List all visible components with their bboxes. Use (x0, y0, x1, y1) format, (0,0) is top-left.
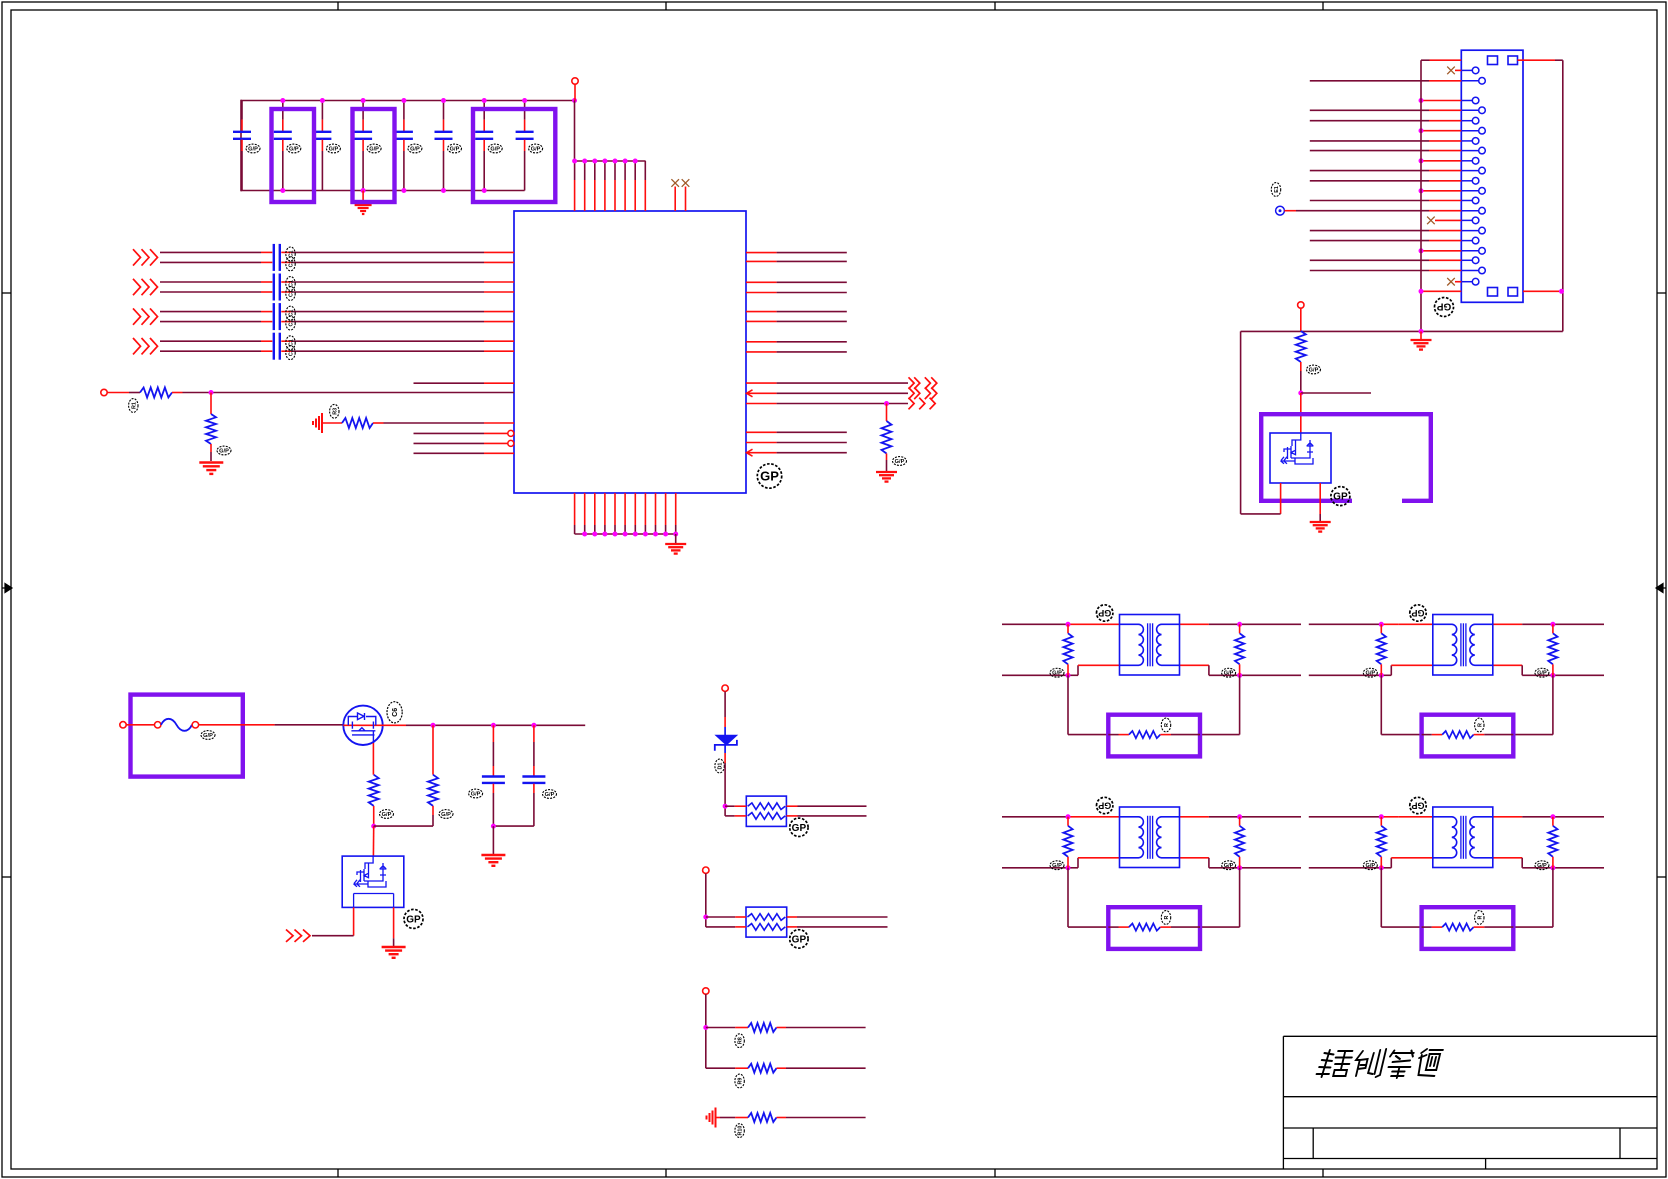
svg-text:G/P: G/P (531, 146, 541, 152)
wire IC bottom pin 2 (584, 493, 586, 525)
wire terminal to RP2 (705, 874, 707, 927)
connector pin 11 (1461, 180, 1472, 182)
junction (582, 159, 587, 164)
title block top (1283, 1035, 1657, 1037)
label C15 (286, 306, 295, 320)
IC top pin bus (575, 160, 646, 162)
wire junction into Q2 (1300, 393, 1302, 433)
wire branch right (1301, 392, 1371, 394)
junction (613, 532, 618, 537)
wire bus top to connector (1421, 59, 1430, 61)
svg-text:R9: R9 (738, 1078, 744, 1085)
zone tick bottom 2 (665, 1169, 667, 1177)
wire R7 drop (432, 725, 434, 774)
wire T3 lower jog left (1068, 867, 1078, 869)
wire IC right long 3 (746, 403, 777, 405)
wire caps common (493, 825, 534, 827)
junction (653, 532, 658, 537)
wire RP1 out b (786, 815, 797, 817)
wire gnd to R10 (716, 1117, 720, 1119)
junction (623, 532, 628, 537)
wire T1 lower rail left (1002, 674, 1068, 676)
wire data pair 1b (160, 261, 261, 263)
label Q1 (387, 702, 402, 723)
label centre-tap R T1 (1161, 718, 1170, 732)
wire IC top pin 4 (604, 161, 606, 180)
wire IC right bus 8 (746, 351, 777, 353)
junction (582, 532, 587, 537)
junction (663, 532, 668, 537)
wire centre-tap left down T4 (1380, 868, 1382, 927)
junction (320, 98, 325, 103)
resistor R2 (206, 414, 216, 444)
resistor pack RP1 (746, 796, 786, 826)
resistor centre-tap T4 (1422, 926, 1432, 928)
connector left bus (1420, 60, 1422, 331)
wire IC bottom pin 7 (634, 493, 636, 525)
transformer T3 primary coil (1120, 817, 1144, 858)
wire T2 top rail left (1309, 623, 1382, 625)
wire T3 lower rail right (1240, 867, 1301, 869)
input arrow on pin 2 (747, 449, 753, 456)
wire R10 out (777, 1117, 787, 1119)
stamp GP for RP1 (790, 818, 808, 836)
capacitor C9 (492, 725, 494, 742)
stamp G/P for C2 (287, 144, 301, 153)
svg-text:G/P: G/P (369, 146, 379, 152)
stamp G/P for F1 (201, 731, 215, 740)
series capacitor pair 3 plate B (279, 303, 281, 330)
wire T4 lower rail right (1553, 867, 1604, 869)
wire IC left stub NC1 (414, 432, 485, 434)
svg-text:GP: GP (1098, 800, 1111, 810)
junction (1379, 814, 1384, 819)
connector pin 16 (1461, 230, 1478, 232)
connector pin 9 (1461, 160, 1472, 162)
svg-text:C1: C1 (289, 290, 295, 297)
wire T4 top rail right (1493, 816, 1522, 818)
transistor Q1 (P-FET in circle) (343, 706, 382, 745)
junction (361, 188, 366, 193)
wire IC bottom pin 3 (594, 493, 596, 525)
wire Q3 left leg (353, 907, 355, 935)
zone tick top 4 (1322, 2, 1324, 10)
capacitor C1 (241, 101, 243, 120)
terminal pull-up (1298, 302, 1304, 308)
stamp G/P for R4 (893, 457, 907, 466)
wire IC top pin 2 (584, 161, 586, 180)
zone tick bottom 1 (337, 1169, 339, 1177)
label termination right T3 (1222, 861, 1236, 870)
label R8 (735, 1034, 744, 1048)
wire input to R1 (107, 392, 129, 394)
wire data pair 1a (160, 251, 261, 253)
junction (371, 824, 376, 829)
wire to pin 19 (1310, 259, 1429, 261)
junction (531, 723, 536, 728)
transformer T2 core (1460, 623, 1462, 666)
junction (361, 98, 366, 103)
wire IC bottom pin 1 (574, 493, 576, 525)
purple highlight box around C7 C8 (473, 109, 555, 202)
junction (280, 188, 285, 193)
svg-text:C1: C1 (289, 349, 295, 356)
label C12 (286, 257, 295, 271)
transformer T1 body (1120, 615, 1180, 676)
capacitor C8 (524, 101, 526, 120)
series capacitor pair 2 plate A (273, 274, 275, 301)
junction (1066, 673, 1071, 678)
svg-text:GP: GP (1411, 608, 1424, 618)
resistor termination left T4 (1380, 817, 1382, 826)
wire IC right stub 1 (746, 431, 777, 433)
label near terminal (1271, 183, 1280, 197)
svg-text:GP: GP (1333, 492, 1348, 503)
svg-text:R: R (1477, 723, 1483, 727)
stamp GP rotated T2 (1410, 605, 1426, 621)
stamp GP for Q2 (1331, 487, 1350, 506)
no-connect circle 1 (508, 430, 514, 436)
wire to pin 8 (1310, 150, 1429, 152)
label termination left T1 (1050, 668, 1064, 677)
svg-text:G/P: G/P (471, 791, 481, 797)
wire to R9 (706, 1067, 736, 1069)
stamp GP rotated T4 (1410, 797, 1426, 813)
wire centre-tap right down T4 (1552, 868, 1554, 927)
connector pin 20 (1461, 270, 1478, 272)
wire connector top right (1518, 59, 1556, 61)
svg-text:R10: R10 (738, 1126, 744, 1136)
wire IC right stub 3 (746, 452, 777, 454)
connector mount square 1 (1488, 56, 1498, 65)
IC U1 body (514, 211, 746, 493)
wire Q1 drain down (372, 743, 374, 775)
company name Wistron (drawn glyphs) (1316, 1049, 1444, 1078)
svg-text:G/P: G/P (203, 733, 213, 739)
junction (592, 532, 597, 537)
wire to pin 11 (1310, 180, 1429, 182)
svg-text:G/P: G/P (1052, 671, 1062, 677)
wire centre-tap right down T2 (1552, 675, 1554, 734)
off-page chevrons right 1 (909, 377, 915, 389)
capacitor C10 (533, 725, 535, 742)
wire T4 lower jog right (1493, 857, 1522, 859)
svg-text:R8: R8 (738, 1037, 744, 1044)
no-connect X pin 15 (1427, 217, 1435, 225)
label R3 (330, 404, 339, 418)
series capacitor pair 4 plate A (273, 333, 275, 360)
ground under connector bus (1420, 331, 1422, 339)
junction (703, 915, 708, 920)
svg-text:G/P: G/P (248, 146, 258, 152)
connector right drop (1562, 60, 1564, 331)
label termination left T4 (1363, 861, 1377, 870)
resistor termination right T2 (1552, 624, 1554, 633)
svg-text:G/P: G/P (289, 146, 299, 152)
zone tick right 2 (1657, 876, 1666, 878)
wire into fuse (126, 724, 154, 726)
series capacitor pair 1 plate B (279, 244, 281, 271)
wire junction down to Q3 (372, 826, 374, 856)
svg-text:G/P: G/P (1365, 671, 1375, 677)
IC bottom pin bus (575, 533, 676, 535)
transformer T4 core (1460, 816, 1462, 859)
ground at IC bottom bus (675, 534, 677, 544)
junction (401, 98, 406, 103)
wire RP1 out a (786, 805, 797, 807)
wire data pair 4b (160, 350, 261, 352)
transformer T4 secondary coil (1470, 817, 1493, 858)
wire T1 lower jog left (1068, 674, 1078, 676)
ground under Q2 (1310, 521, 1331, 523)
wire ground return (1241, 330, 1563, 332)
wire bus stub pin 3 (1421, 100, 1461, 102)
resistor R7 (428, 775, 438, 806)
connector pin 8 (1461, 150, 1478, 152)
wire T3 top into transformer (1085, 816, 1120, 818)
off-page chevrons group 3 (133, 308, 141, 324)
junction (1550, 865, 1555, 870)
wire centre-tap right down T1 (1239, 675, 1241, 734)
wire IC right bus 3 (746, 281, 777, 283)
title block line 2 (1283, 1096, 1657, 1098)
purple highlight box around C2 (272, 109, 315, 202)
transformer T3 body (1120, 807, 1180, 868)
connector mount square 4 (1508, 288, 1518, 297)
wire T2 lower rail left (1309, 674, 1382, 676)
ground rail bottom of capacitor bank (241, 190, 525, 192)
resistor centre-tap T3 (1108, 926, 1118, 928)
wire rail left drop (240, 100, 242, 192)
wire T4 top rail left (1309, 816, 1382, 818)
connector mount square 2 (1508, 56, 1518, 65)
junction (1066, 622, 1071, 627)
stamp GP for Q3 (404, 909, 423, 928)
svg-text:E1: E1 (1274, 186, 1280, 193)
wire data pair 3b (160, 321, 261, 323)
svg-text:C1: C1 (289, 250, 295, 257)
transformer T2 body (1433, 615, 1493, 676)
transformer T1 core (1147, 623, 1149, 666)
wire connector bottom left (1421, 290, 1461, 292)
series capacitor pair 2 plate B (279, 274, 281, 301)
wire IC top pin 7 (634, 161, 636, 180)
svg-text:D1: D1 (718, 763, 724, 770)
transformer T4 primary coil (1433, 817, 1457, 858)
wire RP1 in b (725, 815, 735, 817)
connector pin 1 (1461, 69, 1472, 71)
resistor termination right T4 (1552, 817, 1554, 826)
junction (431, 723, 436, 728)
wire terminal to pin 14 (1284, 210, 1296, 212)
wire data pair 2b (160, 291, 261, 293)
resistor pack RP2 (746, 907, 787, 937)
label centre-tap R T2 (1475, 718, 1484, 732)
wire IC right bus 7 (746, 341, 777, 343)
title block divider c (1485, 1159, 1487, 1170)
resistor R8 (748, 1023, 777, 1032)
wire IC right bus 6 (746, 320, 777, 322)
wire centre-tap left down T2 (1380, 675, 1382, 734)
connector pin 19 (1461, 259, 1472, 261)
junction (401, 188, 406, 193)
connector pin 21 (1461, 281, 1472, 283)
label R1 (129, 399, 138, 413)
wire R3 to IC (373, 422, 384, 424)
wire T3 top rail left (1002, 816, 1068, 818)
resistor R6 (369, 775, 379, 806)
transformer T2 primary coil (1433, 624, 1457, 665)
wire Q2 drain to ground (1319, 483, 1321, 514)
transformer T1 secondary coil (1157, 624, 1180, 665)
junction (613, 159, 618, 164)
wire IC right stub 2 (746, 442, 777, 444)
label D1 (715, 759, 724, 773)
label C9 (469, 789, 483, 798)
stamp GP rotated T1 (1096, 605, 1112, 621)
centre arrow right (1656, 584, 1666, 593)
wire data pair 4a (160, 340, 261, 342)
wire junction down (210, 393, 212, 415)
off-page chevrons gate (286, 930, 293, 942)
purple highlight box around R T1 (1108, 715, 1200, 757)
label C18 (286, 346, 295, 360)
ground under capacitor bank (362, 191, 364, 205)
wire T2 lower jog right (1493, 664, 1522, 666)
zone tick left 2 (2, 876, 11, 878)
wire IC bottom pin 5 (614, 493, 616, 525)
wire R5 to junction (1300, 362, 1302, 371)
wire Q2 source out (1280, 483, 1282, 514)
junction (1237, 622, 1242, 627)
wire IC left stub NC2 (414, 442, 485, 444)
wire T3 top rail right (1180, 816, 1209, 818)
wire to pin 4 (1310, 109, 1429, 111)
connector pin 3 (1461, 100, 1472, 102)
svg-text:G/P: G/P (1052, 863, 1062, 869)
capacitor C2 (282, 101, 284, 120)
svg-text:G/P: G/P (329, 146, 339, 152)
resistor R5 (1296, 331, 1306, 362)
wire down to Q2 source (1240, 331, 1242, 514)
svg-text:G/P: G/P (1224, 863, 1234, 869)
wire IC left stub 2 (414, 452, 485, 454)
wire T2 top into transformer (1398, 623, 1433, 625)
junction (633, 159, 638, 164)
wire R6 to junction (373, 806, 375, 826)
capacitor C3 (321, 101, 323, 120)
junction (1379, 865, 1384, 870)
terminal VCC (572, 78, 578, 84)
label centre-tap R T4 (1475, 911, 1484, 925)
resistor R3 (342, 418, 373, 428)
wire R7 to junction (432, 806, 434, 815)
stamp G/P for C3 (326, 144, 340, 153)
stamp G/P for C5 (408, 144, 422, 153)
junction (482, 98, 487, 103)
transistor Q3 internals (354, 856, 394, 907)
wire T1 top rail left (1002, 623, 1068, 625)
wire IC right long 2 (746, 392, 777, 394)
transistor Q2 body (1270, 433, 1331, 483)
wire to pin 17 (1310, 240, 1429, 242)
wire data pair 3a (160, 311, 261, 313)
wire IC top pin 5 (614, 161, 616, 180)
zone tick top 1 (337, 2, 339, 10)
terminal input (101, 389, 107, 395)
label C14 (286, 287, 295, 301)
svg-text:R: R (1477, 915, 1483, 919)
title block divider b (1619, 1128, 1621, 1159)
wire terminal down (705, 994, 707, 1068)
wire RP1 in a (725, 805, 735, 807)
transistor Q3 body (342, 856, 404, 907)
resistor termination right T3 (1239, 817, 1241, 826)
svg-text:C6: C6 (392, 708, 399, 717)
wire data pair 2a (160, 281, 261, 283)
stamp G/P for C8 (529, 144, 543, 153)
wire bus stub pin 9 (1421, 160, 1461, 162)
wire terminal to R5 (1300, 308, 1302, 331)
stamp G/P for R5 (1307, 365, 1321, 374)
svg-text:G/P: G/P (545, 792, 555, 798)
series capacitor pair 1 plate A (273, 244, 275, 271)
junction (572, 98, 577, 103)
wire D1 to junction (724, 745, 726, 753)
svg-text:GP: GP (1098, 608, 1111, 618)
svg-text:G/P: G/P (1309, 367, 1319, 373)
junction (280, 98, 285, 103)
wire to pin 2 (1310, 80, 1429, 82)
svg-text:G/P: G/P (490, 146, 500, 152)
wire IC bottom pin 8 (644, 493, 646, 525)
junction (602, 159, 607, 164)
wire R8 out (777, 1027, 787, 1029)
junction (1298, 391, 1303, 396)
connector pin 14 (1461, 210, 1478, 212)
resistor R9 (748, 1064, 777, 1073)
svg-text:GP: GP (792, 823, 807, 834)
purple highlight box around Q2 (1261, 414, 1431, 501)
wire IC top pin 6 (624, 161, 626, 180)
wire T1 lower jog right (1180, 664, 1209, 666)
wire to pin 10 (1310, 170, 1429, 172)
wire from VCC terminal to rail (574, 84, 576, 100)
resistor R4 (882, 421, 892, 454)
wire Q3 right leg (393, 907, 395, 938)
terminal pull-up D1 (722, 685, 728, 691)
stamp G/P for R6 (380, 810, 394, 819)
junction (592, 159, 597, 164)
junction (723, 804, 728, 809)
junction (1237, 814, 1242, 819)
wire T1 lower rail right (1240, 674, 1301, 676)
wire IC right bus 4 (746, 292, 777, 294)
ground under R2 (199, 461, 223, 463)
stamp G/P for R7 (439, 810, 453, 819)
label R9 (735, 1074, 744, 1088)
no-connect X pin 21 (1447, 278, 1455, 286)
junction (441, 188, 446, 193)
zener diode D1 (716, 735, 737, 745)
wire IC bottom pin 11 (675, 493, 677, 525)
capacitor C7 (483, 101, 485, 120)
transformer T1 primary coil (1120, 624, 1144, 665)
resistor centre-tap T1 (1108, 734, 1118, 736)
title block left edge (1282, 1036, 1284, 1169)
svg-text:GP: GP (406, 915, 421, 926)
wire centre-tap left down T1 (1067, 675, 1069, 734)
